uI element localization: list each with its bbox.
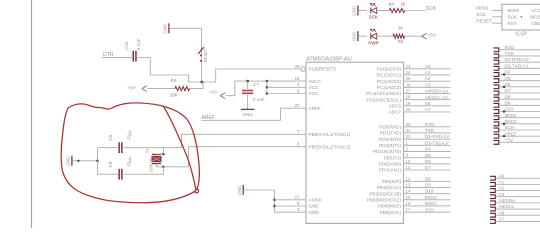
capacitor C10 — [133, 51, 135, 62]
svg-text:15: 15 — [406, 195, 411, 200]
svg-text:D6: D6 — [505, 82, 511, 87]
svg-text:VCC: VCC — [309, 85, 319, 90]
svg-text:Y1: Y1 — [145, 148, 150, 154]
svg-text:ICSP: ICSP — [515, 32, 527, 38]
junction C7 top — [246, 80, 249, 83]
svg-text:GND: GND — [237, 186, 242, 196]
pin header JP1-16 +5V — [494, 140, 499, 144]
svg-text:MISO: MISO — [508, 8, 520, 13]
svg-text:GND: GND — [309, 210, 320, 215]
junction D10 — [503, 110, 506, 113]
wire R3 to +5V — [405, 35, 422, 37]
svg-text:9: 9 — [406, 153, 409, 158]
resistor R7 — [389, 8, 404, 12]
LED SCK — [370, 8, 372, 14]
svg-text:28: 28 — [406, 95, 411, 100]
pin header JP2-4 A3 — [490, 195, 495, 199]
svg-text:PC6(RESET): PC6(RESET) — [309, 67, 337, 72]
capacitor C8 — [98, 147, 118, 149]
wire net A3 — [404, 86, 451, 88]
svg-text:PWR: PWR — [368, 40, 378, 45]
svg-text:A1: A1 — [425, 70, 431, 75]
svg-text:8: 8 — [297, 142, 300, 147]
svg-text:PB0(ICP): PB0(ICP) — [382, 179, 402, 184]
svg-text:PC5(ADC5/SCL): PC5(ADC5/SCL) — [367, 97, 402, 102]
wire to VCC pin 4 — [267, 86, 306, 88]
pin header JP1-8 D7 — [494, 91, 499, 95]
svg-text:GND: GND — [66, 156, 71, 166]
svg-text:RXD: RXD — [425, 122, 436, 127]
svg-text:AREF: AREF — [309, 106, 321, 111]
svg-text:GND: GND — [242, 112, 253, 117]
svg-text:22pF: 22pF — [126, 129, 134, 140]
wire net A1 — [404, 74, 451, 76]
svg-text:PD7(AIN1): PD7(AIN1) — [379, 168, 402, 173]
svg-text:PD4(XCK/T0): PD4(XCK/T0) — [373, 149, 402, 154]
pin header JP2-3 A2 — [490, 189, 495, 193]
svg-text:R4: R4 — [171, 78, 177, 83]
svg-text:16: 16 — [406, 201, 411, 206]
capacitor C7 — [242, 90, 253, 92]
svg-text:PB1(OC1A): PB1(OC1A) — [377, 185, 402, 190]
svg-text:+5V: +5V — [505, 137, 514, 142]
wire crystal top to C8 net — [162, 148, 164, 154]
capacitor C9 — [98, 173, 118, 175]
svg-text:PC2(ADC2): PC2(ADC2) — [377, 79, 402, 84]
junction AGND — [273, 198, 276, 201]
svg-text:D2-RXD-LV: D2-RXD-LV — [425, 134, 450, 139]
wire LED2 to R3 — [378, 35, 393, 37]
svg-text:SCK: SCK — [426, 6, 437, 12]
resistor R4 body — [175, 87, 190, 91]
svg-text:C7: C7 — [253, 82, 259, 87]
wire RESET to ICSP — [492, 22, 502, 24]
svg-text:MOSI: MOSI — [505, 113, 517, 118]
svg-text:A7: A7 — [425, 107, 431, 112]
svg-text:PD2(INT0): PD2(INT0) — [379, 137, 401, 142]
wire DTR to C10 — [102, 56, 132, 58]
svg-text:0.1uF: 0.1uF — [253, 97, 265, 102]
svg-text:1K: 1K — [398, 26, 403, 31]
pin header JP1-3 D2-RXD-LV — [494, 60, 499, 64]
svg-text:PD0(RXD): PD0(RXD) — [379, 125, 401, 130]
wire VCC branch vertical — [266, 81, 268, 93]
svg-text:PC3(ADC3): PC3(ADC3) — [377, 85, 402, 90]
svg-text:A4/SDA: A4/SDA — [499, 198, 517, 203]
wire AREF to pin 20 — [201, 108, 306, 120]
junction D6 — [503, 86, 506, 89]
svg-text:GND: GND — [531, 21, 540, 26]
svg-text:26: 26 — [406, 82, 411, 87]
wire net A2 — [404, 80, 451, 82]
pin header JP2-8 A7 — [490, 219, 495, 223]
svg-text:MISO: MISO — [425, 201, 437, 206]
svg-text:GND: GND — [352, 32, 357, 42]
svg-text:PC0(ADC0): PC0(ADC0) — [377, 67, 402, 72]
svg-text:D8: D8 — [425, 176, 431, 181]
svg-text:4: 4 — [297, 82, 300, 87]
svg-text:22pF: 22pF — [126, 156, 134, 167]
svg-text:29: 29 — [295, 64, 300, 69]
svg-text:25: 25 — [406, 76, 411, 81]
svg-text:PB4(MISO): PB4(MISO) — [378, 204, 402, 209]
pin header JP2-7 A6 — [490, 213, 495, 217]
svg-text:22: 22 — [406, 107, 411, 112]
pin header JP1-1 RXD — [494, 48, 499, 52]
svg-text:PB6(XTAL1/TOSC1): PB6(XTAL1/TOSC1) — [309, 132, 351, 137]
ground GND LED1 — [357, 6, 359, 16]
svg-text:A3: A3 — [425, 82, 431, 87]
wire MISO — [499, 123, 540, 125]
svg-text:14: 14 — [406, 189, 411, 194]
svg-text:19: 19 — [406, 101, 411, 106]
svg-text:23: 23 — [406, 64, 411, 69]
pin header JP2-6 A5/SCL — [490, 207, 495, 211]
junction crystal bottom — [162, 165, 165, 168]
svg-text:A0: A0 — [425, 64, 431, 69]
svg-text:RESET: RESET — [476, 18, 492, 23]
junction crystal top — [162, 153, 165, 156]
svg-text:SCK: SCK — [505, 125, 516, 130]
pin header JP1-4 D3-TXD-LV — [494, 66, 499, 70]
svg-text:11: 11 — [406, 165, 411, 170]
wire net D4 — [404, 150, 451, 152]
svg-text:A2: A2 — [425, 76, 431, 81]
svg-text:PD3(INT1): PD3(INT1) — [379, 143, 401, 148]
wire crystal pin bottom — [157, 164, 164, 167]
svg-text:AREF: AREF — [505, 131, 518, 136]
wire net A7 — [404, 111, 451, 113]
svg-text:18: 18 — [295, 76, 300, 81]
svg-text:D2-RXD-LV: D2-RXD-LV — [505, 57, 530, 62]
svg-text:ATMEGA328P-AU: ATMEGA328P-AU — [306, 57, 352, 63]
svg-text:C8: C8 — [108, 134, 113, 140]
svg-text:D3-TXD-LV: D3-TXD-LV — [425, 140, 450, 145]
svg-text:D7: D7 — [425, 165, 431, 170]
wire MISO to ICSP — [492, 9, 502, 11]
wire net D7 — [404, 169, 451, 171]
svg-text:GND: GND — [163, 24, 168, 34]
svg-text:GND: GND — [309, 204, 320, 209]
wire D6 — [499, 86, 540, 88]
svg-text:D6: D6 — [425, 159, 431, 164]
ground GND under C7 — [241, 108, 254, 110]
wire net TXD — [404, 132, 451, 134]
svg-text:+5V: +5V — [127, 85, 136, 91]
junction VCC pin6 — [266, 92, 269, 95]
wire A4/SDA — [495, 202, 540, 204]
wire C7 to ground — [247, 95, 249, 109]
svg-text:PC4(ADC4/SDA): PC4(ADC4/SDA) — [366, 91, 401, 96]
svg-text:10: 10 — [406, 159, 411, 164]
wire A7 — [495, 220, 540, 222]
svg-text:SCK: SCK — [476, 12, 487, 17]
svg-text:MISO: MISO — [505, 119, 517, 124]
pin header JP1-12 MOSI — [494, 116, 499, 120]
wire GND to IC ground pins — [244, 189, 275, 191]
svg-text:A2: A2 — [499, 186, 505, 191]
svg-text:PD5(T1): PD5(T1) — [384, 155, 402, 160]
wire A6 — [495, 214, 540, 216]
svg-text:7: 7 — [297, 129, 300, 134]
svg-text:+5V: +5V — [428, 32, 437, 37]
wire GND to LED2 — [359, 35, 367, 37]
pin 29 inversion bubble — [301, 67, 306, 72]
wire net D2-RXD-LV — [404, 138, 451, 140]
svg-text:D7: D7 — [505, 88, 511, 93]
junction gnd bus — [96, 159, 99, 162]
wire A0 — [495, 177, 540, 179]
svg-text:R3: R3 — [398, 39, 404, 44]
svg-text:SCK: SCK — [369, 15, 378, 20]
wire net SCK — [404, 211, 451, 213]
ground GND crystal — [71, 156, 73, 166]
wire net MOSI — [404, 199, 451, 201]
svg-text:D5: D5 — [505, 76, 511, 81]
junction AREF — [503, 135, 506, 138]
svg-text:+5V: +5V — [209, 89, 218, 95]
wire D3-TXD-LV — [499, 67, 540, 69]
svg-text:PB7(XTAL2/TOSC2): PB7(XTAL2/TOSC2) — [309, 144, 351, 149]
supply +5V at R3 — [422, 33, 427, 39]
wire +5V to R4 — [148, 88, 175, 90]
svg-text:MOSI: MOSI — [425, 195, 437, 200]
wire XTAL2 to pin 8 — [163, 147, 306, 167]
wire net MISO — [404, 205, 451, 207]
pin header JP1-2 TXD — [494, 54, 499, 58]
wire net D3-TXD-LV — [404, 144, 451, 146]
wire D9 — [499, 104, 540, 106]
svg-text:R7: R7 — [389, 2, 395, 7]
junction reset node — [201, 81, 204, 84]
wire D2-RXD-LV — [499, 61, 540, 63]
svg-text:6: 6 — [297, 88, 300, 93]
wire capacitor bus vertical — [97, 148, 99, 175]
wire D8 — [499, 98, 540, 100]
junction VCC pin4 — [266, 86, 269, 89]
svg-text:A6: A6 — [425, 101, 431, 106]
schematic frame border — [31, 0, 33, 228]
svg-text:32: 32 — [406, 134, 411, 139]
wire net A0 — [404, 68, 451, 70]
wire net A4/SDA-LV — [404, 92, 451, 94]
svg-text:AVCC: AVCC — [309, 79, 322, 84]
svg-text:A0: A0 — [499, 173, 505, 178]
supply +5V arrow at R4 — [142, 86, 147, 92]
wire net D6 — [404, 163, 451, 165]
wire D10 — [499, 111, 540, 113]
wire TXD — [499, 55, 540, 57]
svg-text:D3-TXD-LV: D3-TXD-LV — [505, 63, 530, 68]
svg-text:13: 13 — [406, 182, 411, 187]
svg-text:A1: A1 — [499, 179, 505, 184]
wire SCK — [499, 129, 540, 131]
svg-text:VCC: VCC — [309, 91, 319, 96]
wire +5V to AVCC — [226, 81, 306, 96]
svg-text:TXD: TXD — [425, 128, 435, 133]
connector ICSP body — [502, 4, 540, 30]
wire A5/SCL — [495, 208, 540, 210]
svg-text:PB2(SS/OC1B): PB2(SS/OC1B) — [369, 191, 401, 196]
pin header JP1-6 D5 — [494, 79, 499, 83]
wire A2 — [495, 190, 540, 192]
svg-text:SCK: SCK — [508, 15, 518, 20]
junction GND pin5 — [273, 205, 276, 208]
wire net D8 — [404, 180, 451, 182]
svg-text:3: 3 — [297, 207, 300, 212]
pin header JP1-14 SCK — [494, 128, 499, 132]
wire A1 — [495, 183, 540, 185]
wire to AGND pin 21 — [275, 199, 307, 201]
svg-text:PD6(AIN0): PD6(AIN0) — [379, 162, 402, 167]
wire to VCC pin 6 — [267, 93, 306, 95]
junction D4 — [503, 73, 506, 76]
svg-text:ADC7: ADC7 — [389, 110, 402, 115]
wire R7 to SCK label — [405, 10, 426, 12]
svg-text:17: 17 — [406, 207, 411, 212]
IC U1 ATMEGA328P-AU body — [306, 62, 404, 223]
junction AVCC branch — [266, 80, 269, 83]
svg-text:C9: C9 — [108, 161, 113, 167]
wire net RXD — [404, 126, 451, 128]
wire XTAL1 to pin 7 — [182, 134, 307, 147]
red annotation knot — [195, 189, 199, 193]
pin header JP2-5 A4/SDA — [490, 201, 495, 205]
svg-text:RESET: RESET — [203, 48, 208, 62]
pin header JP1-9 D8 — [494, 97, 499, 101]
wire MOSI — [499, 117, 540, 119]
wire D5 — [499, 80, 540, 82]
ground GND LED2 — [357, 31, 359, 41]
wire C10 to reset junction — [137, 57, 202, 82]
svg-text:27: 27 — [406, 88, 411, 93]
wire net A6 — [404, 105, 451, 107]
svg-text:A3: A3 — [499, 192, 505, 197]
wire SCK to ICSP — [492, 16, 502, 18]
pin header JP1-5 D4 — [494, 73, 499, 77]
svg-text:PD1(TXD): PD1(TXD) — [380, 131, 402, 136]
svg-text:10K: 10K — [170, 93, 179, 98]
wire to GND pin 5 — [275, 205, 307, 207]
svg-text:30: 30 — [406, 122, 411, 127]
junction MISO — [503, 123, 506, 126]
wire AREF — [499, 135, 540, 137]
svg-text:A7: A7 — [499, 216, 505, 221]
pin header JP1-11 D10 — [494, 110, 499, 114]
svg-text:20: 20 — [295, 103, 300, 108]
crystal Y1 — [152, 153, 161, 155]
svg-text:PB3(MOSI/OC2): PB3(MOSI/OC2) — [367, 198, 402, 203]
pin header JP1-13 MISO — [494, 122, 499, 126]
svg-text:A5/SCL-LV: A5/SCL-LV — [425, 95, 449, 100]
svg-text:D4: D4 — [425, 147, 431, 152]
ground GND for AGND — [242, 185, 244, 195]
wire net D5 — [404, 157, 451, 159]
svg-text:D8: D8 — [505, 94, 511, 99]
svg-text:D10: D10 — [425, 189, 434, 194]
wire GND to LED1 — [359, 10, 367, 12]
pin header JP2-2 A1 — [490, 182, 495, 186]
svg-text:VCC: VCC — [531, 8, 540, 13]
pin header JP1-7 D6 — [494, 85, 499, 89]
svg-text:ADC6: ADC6 — [389, 104, 402, 109]
svg-text:12: 12 — [406, 176, 411, 181]
svg-text:MISO: MISO — [476, 6, 488, 11]
wire to GND pin 3 — [275, 211, 307, 213]
wire net D9 — [404, 186, 451, 188]
svg-text:1: 1 — [406, 140, 409, 145]
wire crystal pin top — [157, 153, 164, 155]
wire GND to capacitor bus — [73, 160, 98, 162]
wire R4 to reset junction — [190, 82, 204, 89]
svg-text:D9: D9 — [505, 100, 511, 105]
svg-text:D9: D9 — [425, 183, 431, 188]
svg-text:PC1(ADC1): PC1(ADC1) — [377, 73, 402, 78]
svg-text:21: 21 — [295, 195, 300, 200]
wire reset junction to pin 29 — [202, 69, 301, 82]
svg-text:MOSI: MOSI — [530, 15, 540, 20]
wire net A5/SCL-LV — [404, 99, 451, 101]
resistor R3 — [393, 34, 405, 38]
svg-text:GND: GND — [352, 6, 357, 16]
svg-text:D4: D4 — [505, 70, 511, 75]
wire A3 — [495, 196, 540, 198]
ground GND top-left — [168, 23, 170, 33]
svg-text:D10: D10 — [505, 107, 514, 112]
red annotation inner stroke — [164, 107, 196, 190]
svg-text:TXD: TXD — [505, 51, 515, 56]
reset switch S1 — [198, 47, 204, 54]
svg-text:D5: D5 — [425, 153, 431, 158]
svg-text:A6: A6 — [499, 210, 505, 215]
svg-text:0.1uF: 0.1uF — [136, 38, 141, 50]
wire +5V — [499, 141, 540, 143]
hand-drawn red annotation circle — [61, 103, 199, 203]
svg-text:A5/SCL: A5/SCL — [499, 204, 516, 209]
wire net D10 — [404, 193, 451, 195]
svg-text:PB5(SCK): PB5(SCK) — [380, 210, 402, 215]
svg-text:16MHZ: 16MHZ — [149, 159, 154, 173]
svg-text:AGND: AGND — [309, 198, 323, 203]
svg-text:A4/SDA-LV: A4/SDA-LV — [425, 89, 449, 94]
pin header JP2-1 A0 — [490, 176, 495, 180]
wire LED1 to R7 — [378, 10, 389, 12]
wire D4 — [499, 73, 540, 75]
wire GND to reset switch — [170, 27, 202, 29]
wire down to C7 — [247, 81, 249, 89]
wire RXD — [499, 49, 540, 51]
svg-text:C10: C10 — [124, 41, 129, 50]
svg-text:31: 31 — [406, 128, 411, 133]
pin header JP1-15 AREF — [494, 134, 499, 138]
junction on gnd wire — [77, 160, 79, 162]
svg-text:2: 2 — [406, 146, 409, 151]
svg-text:SCK: SCK — [425, 207, 436, 212]
pin header JP1-10 D9 — [494, 103, 499, 107]
svg-text:5: 5 — [297, 201, 300, 206]
svg-text:RST: RST — [508, 21, 517, 26]
LED PWR — [370, 33, 372, 39]
svg-text:24: 24 — [406, 70, 411, 75]
wire D7 — [499, 92, 540, 94]
wire crystal bottom to C9 net — [162, 167, 164, 174]
svg-text:RXD: RXD — [505, 45, 516, 50]
svg-text:1k: 1k — [401, 2, 406, 7]
